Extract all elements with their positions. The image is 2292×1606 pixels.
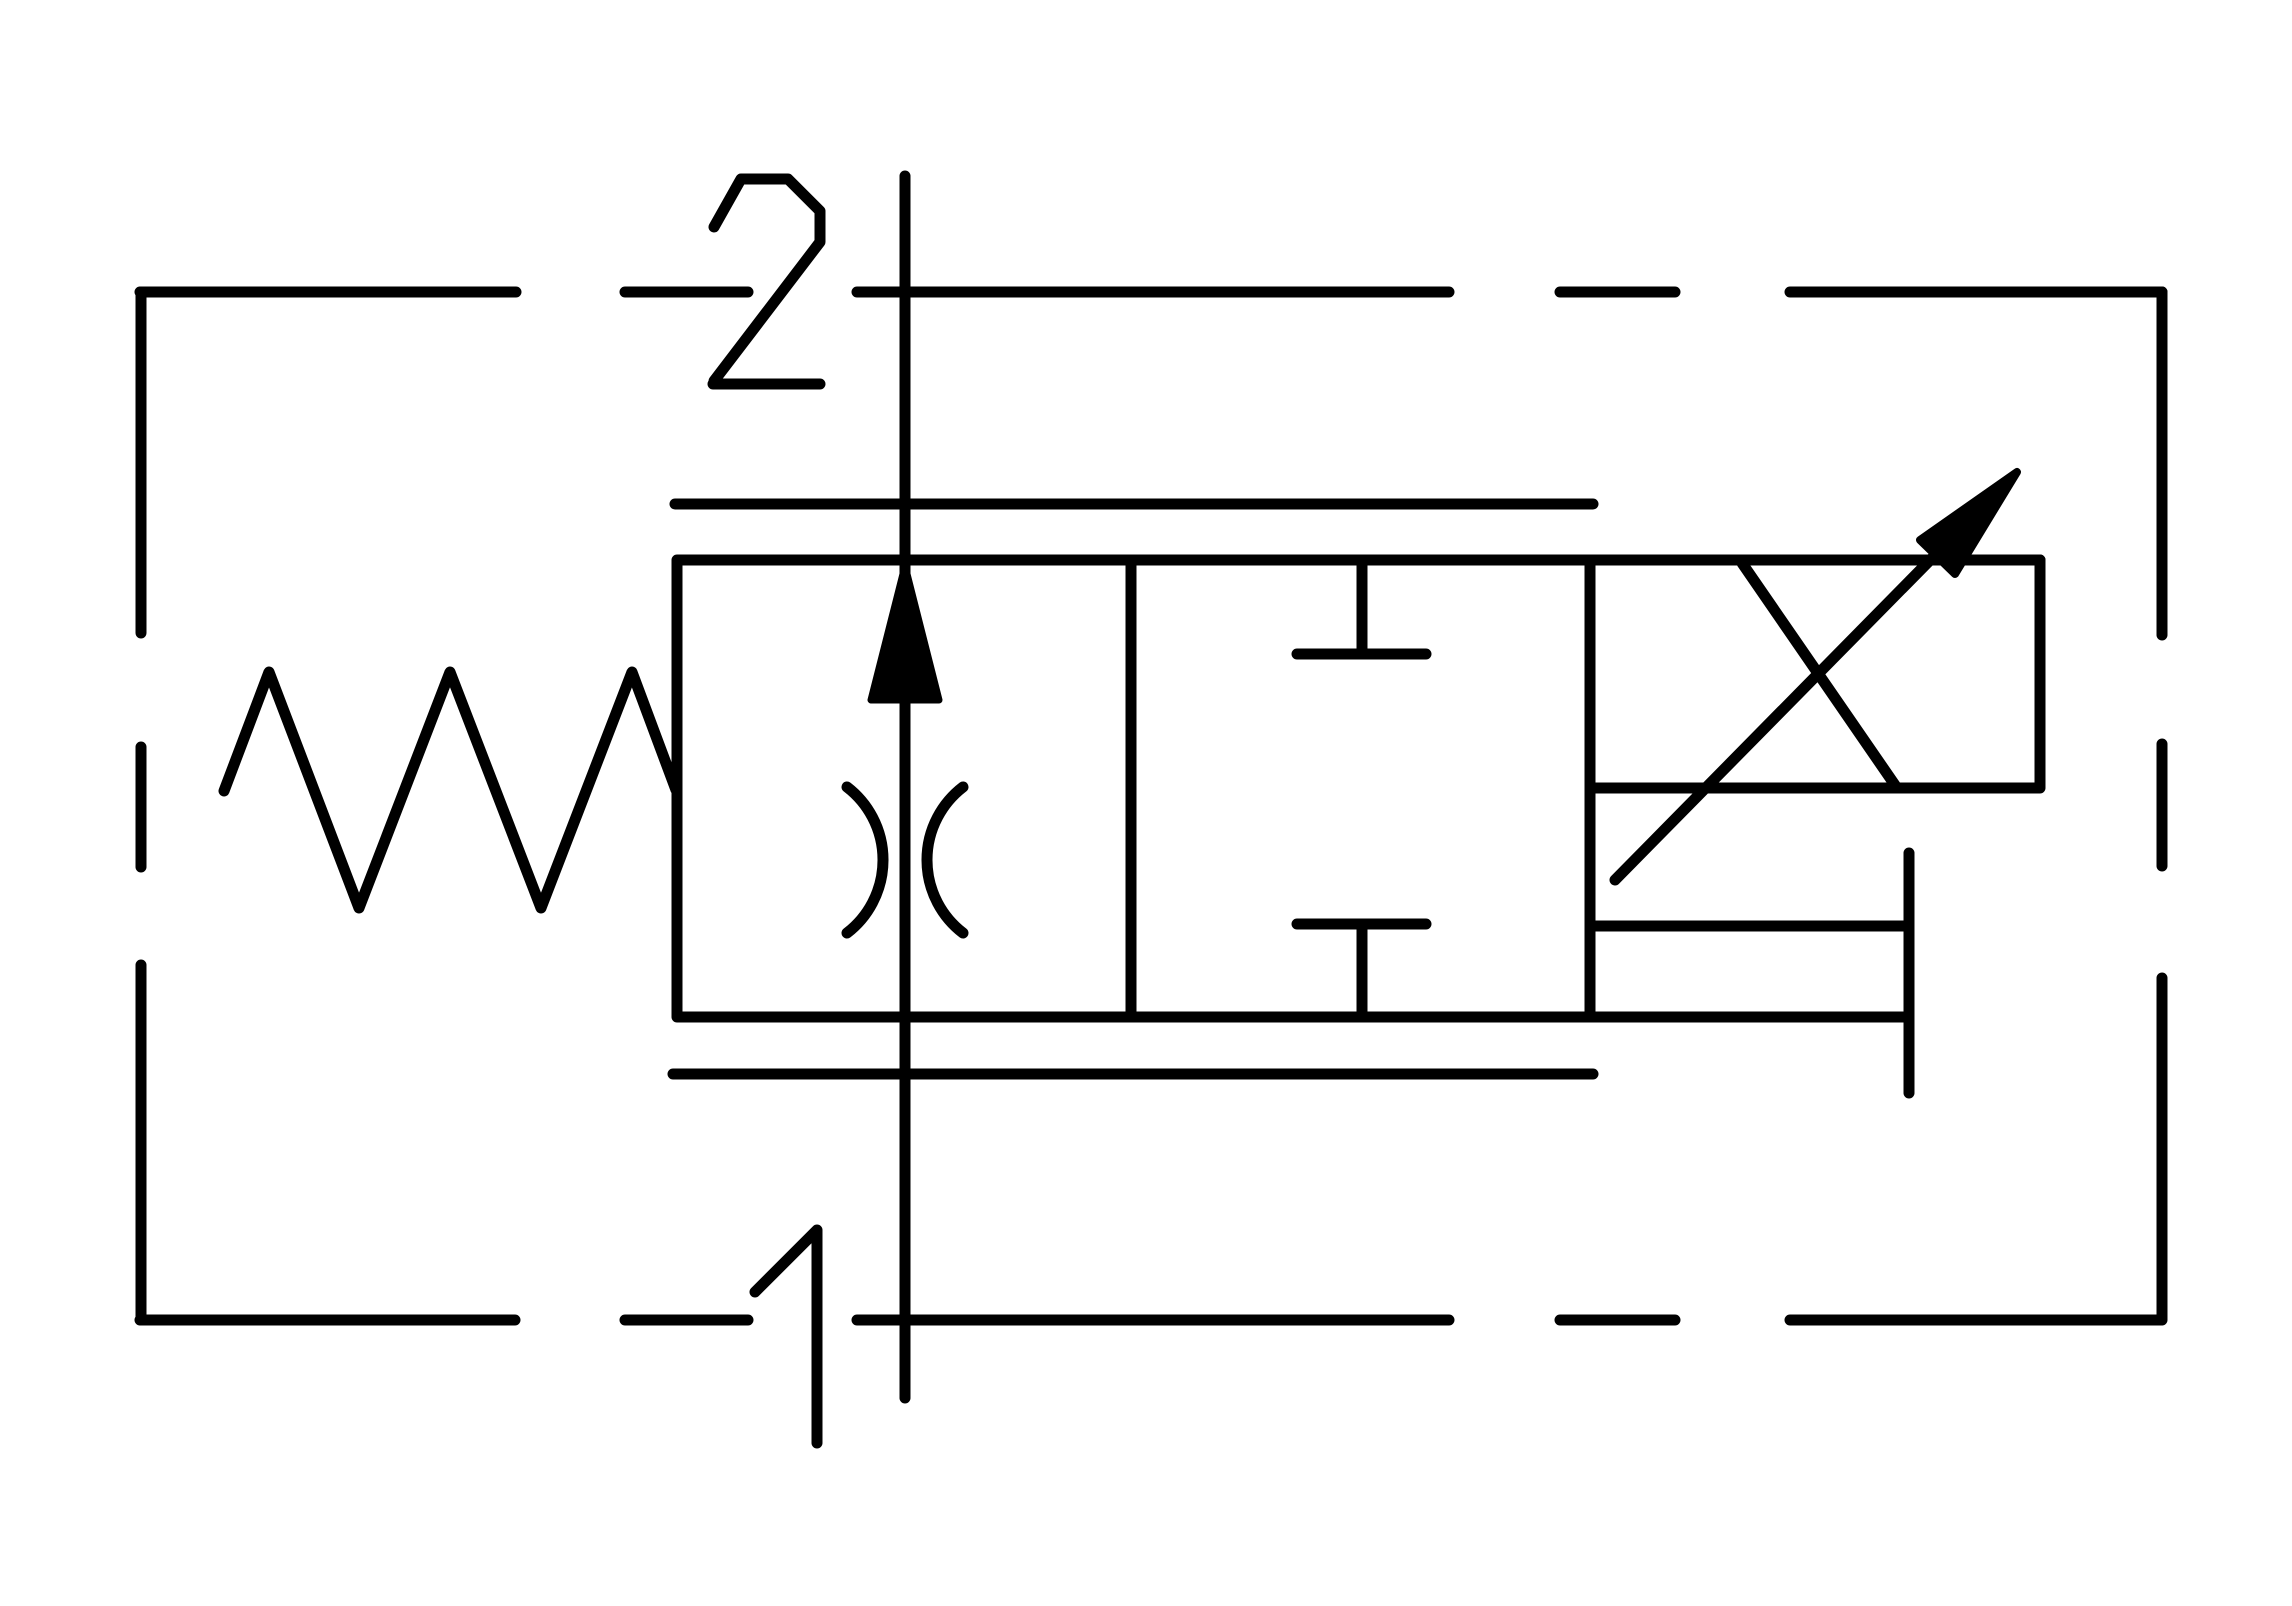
orifice right arc bbox=[927, 787, 963, 933]
drain symbol top T bbox=[1297, 560, 1426, 654]
enclosure dashed border, right edge bbox=[2157, 292, 2168, 1320]
drain symbol bottom T bbox=[1297, 924, 1426, 1017]
compartment divider 2 bbox=[1585, 560, 1596, 1017]
lower valve stroke-limit line bbox=[673, 1069, 1593, 1080]
compartment divider 1 bbox=[1126, 560, 1137, 1017]
solenoid box right and bottom edges bbox=[1590, 560, 2040, 788]
adjustment arrow head bbox=[1920, 472, 2017, 574]
orifice left arc bbox=[847, 787, 883, 933]
valve body outline (top, left, bottom edges) bbox=[677, 560, 2040, 1017]
port 2 label bbox=[713, 179, 820, 384]
flow direction arrowhead bbox=[871, 566, 939, 700]
stop bar at pilot line end bbox=[1904, 853, 1915, 1093]
enclosure dashed border, bottom edge bbox=[140, 1315, 2161, 1326]
enclosure dashed border, top edge bbox=[140, 287, 2162, 298]
enclosure dashed border, left edge bbox=[136, 292, 147, 1320]
main flow line from port 2 to port 1 bbox=[900, 176, 911, 1398]
spring bbox=[224, 672, 676, 908]
adjustment arrow shaft bbox=[1615, 545, 1945, 880]
pilot line below solenoid box bbox=[1590, 921, 1909, 932]
port 1 label bbox=[755, 1230, 817, 1443]
solenoid cross diagonal bbox=[1742, 563, 1897, 788]
upper valve stroke-limit line bbox=[675, 499, 1593, 510]
